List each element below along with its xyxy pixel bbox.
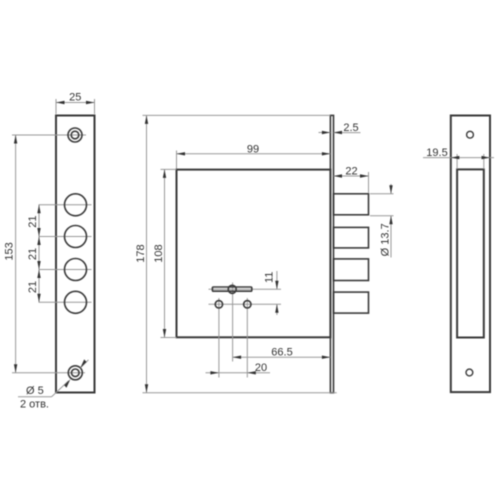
dim 11	[276, 271, 278, 289]
svg-text:Ø 5: Ø 5	[26, 385, 44, 397]
svg-text:21: 21	[27, 215, 39, 227]
dim 108	[161, 168, 177, 170]
svg-text:19.5: 19.5	[426, 147, 447, 159]
faceplate outline	[56, 116, 95, 393]
faceplate top screw hole centerline	[12, 134, 86, 136]
dim 99	[176, 151, 178, 169]
svg-text:66.5: 66.5	[271, 346, 292, 358]
left hole vertical line	[218, 298, 220, 378]
bolt 1	[334, 194, 369, 215]
dim diameter 13.7	[370, 193, 394, 195]
key shape circle	[228, 285, 236, 293]
lock faceplate strip	[330, 115, 333, 392]
dim 21 b	[37, 237, 40, 246]
dim 19.5	[423, 157, 494, 159]
bolt 3	[334, 259, 369, 281]
dim 22	[368, 172, 370, 193]
dim 153	[15, 135, 17, 373]
svg-text:153: 153	[4, 242, 16, 260]
key shape bar	[212, 287, 251, 291]
big hole 3	[65, 259, 87, 281]
dim 21 a	[38, 205, 40, 302]
dim 21 c	[37, 270, 40, 279]
bolt 4	[334, 292, 369, 313]
svg-text:2 отв.: 2 отв.	[20, 399, 49, 411]
svg-text:2.5: 2.5	[343, 122, 358, 134]
dim 66.5	[233, 356, 331, 358]
bolt 2	[334, 227, 369, 248]
big hole centerline 1	[39, 204, 92, 206]
svg-text:22: 22	[345, 165, 357, 177]
strike plate outline	[451, 116, 490, 393]
right hole vertical line	[246, 298, 248, 378]
dim 2.5	[319, 132, 331, 134]
faceplate bottom screw hole centerline	[12, 372, 85, 374]
strike top hole	[467, 131, 474, 138]
key center vertical line	[232, 283, 234, 362]
dim 20	[206, 372, 271, 374]
big hole centerline 2	[39, 236, 92, 238]
right handle hole	[244, 301, 251, 308]
svg-text:21: 21	[27, 281, 39, 293]
dim 178	[143, 114, 331, 116]
left handle hole	[215, 301, 222, 308]
strike plate slot	[457, 169, 484, 337]
svg-text:11: 11	[264, 272, 276, 283]
bottom screw hole	[68, 366, 82, 380]
strike bottom hole	[466, 369, 473, 376]
key hole centerline horizontal	[209, 288, 282, 290]
big hole 1	[65, 194, 87, 216]
big hole centerline 4	[39, 301, 92, 303]
svg-text:Ø 13.7: Ø 13.7	[379, 223, 391, 256]
svg-text:21: 21	[27, 248, 39, 260]
dim 25	[55, 99, 57, 114]
svg-text:108: 108	[153, 244, 165, 262]
svg-text:20: 20	[255, 362, 267, 374]
top screw hole	[68, 128, 82, 142]
big hole centerline 3	[39, 269, 92, 271]
svg-text:178: 178	[135, 244, 147, 262]
svg-text:25: 25	[69, 92, 81, 104]
big hole 2	[65, 226, 87, 248]
svg-text:99: 99	[247, 144, 259, 156]
big hole 4	[65, 291, 87, 313]
lock body outline	[177, 170, 331, 338]
handle holes centerline horizontal	[209, 303, 282, 305]
